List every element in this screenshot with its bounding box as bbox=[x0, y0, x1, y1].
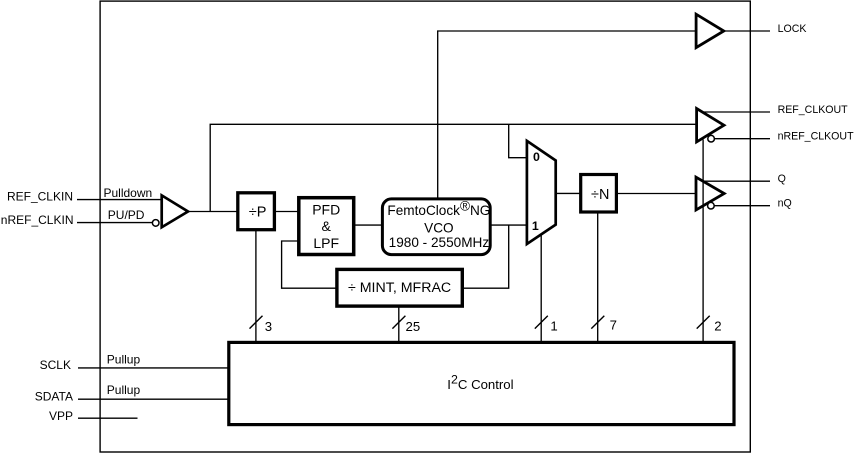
svg-text:nREF_CLKIN: nREF_CLKIN bbox=[1, 213, 74, 227]
svg-text:Pulldown: Pulldown bbox=[104, 186, 153, 200]
svg-text:0: 0 bbox=[533, 150, 540, 164]
svg-text:1: 1 bbox=[550, 318, 557, 333]
svg-text:Q: Q bbox=[778, 173, 786, 185]
svg-text:1980 - 2550MHz: 1980 - 2550MHz bbox=[389, 235, 490, 250]
svg-text:SDATA: SDATA bbox=[35, 390, 73, 404]
svg-text:LPF: LPF bbox=[313, 235, 339, 251]
svg-text:LOCK: LOCK bbox=[778, 23, 807, 35]
svg-text:1: 1 bbox=[532, 219, 539, 233]
svg-text:PFD: PFD bbox=[312, 202, 340, 218]
svg-text:PU/PD: PU/PD bbox=[108, 208, 145, 222]
svg-text:SCLK: SCLK bbox=[40, 358, 71, 372]
svg-text:25: 25 bbox=[406, 319, 421, 334]
svg-text:7: 7 bbox=[610, 318, 617, 333]
svg-text:÷N: ÷N bbox=[591, 187, 609, 203]
svg-text:VPP: VPP bbox=[49, 409, 73, 423]
svg-text:VCO: VCO bbox=[424, 221, 453, 236]
svg-text:÷P: ÷P bbox=[249, 205, 267, 221]
svg-text:÷ MINT, MFRAC: ÷ MINT, MFRAC bbox=[348, 280, 451, 296]
svg-text:Pullup: Pullup bbox=[107, 353, 141, 367]
svg-text:&: & bbox=[322, 218, 332, 234]
svg-text:nQ: nQ bbox=[778, 198, 792, 210]
svg-text:2: 2 bbox=[714, 319, 721, 334]
svg-text:Pullup: Pullup bbox=[107, 383, 141, 397]
svg-text:nREF_CLKOUT: nREF_CLKOUT bbox=[778, 130, 854, 142]
svg-text:3: 3 bbox=[265, 319, 272, 334]
svg-text:REF_CLKOUT: REF_CLKOUT bbox=[778, 104, 849, 116]
svg-text:REF_CLKIN: REF_CLKIN bbox=[7, 190, 73, 204]
